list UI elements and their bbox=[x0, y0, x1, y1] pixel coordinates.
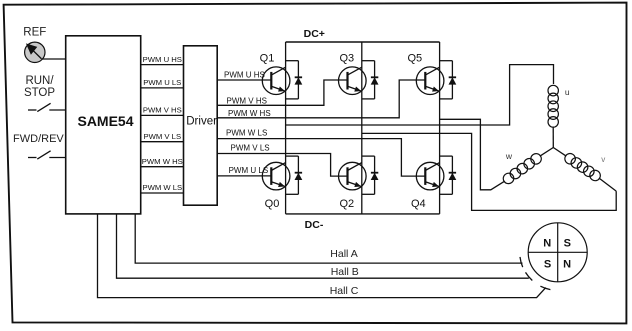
wire gate Q1 bbox=[217, 79, 271, 81]
wire Hall B bbox=[117, 214, 529, 278]
svg-text:v: v bbox=[601, 155, 605, 164]
switch RUN/STOP bbox=[28, 109, 37, 111]
svg-text:PWM W LS: PWM W LS bbox=[142, 183, 182, 192]
wire gate Q2 bbox=[217, 154, 347, 177]
svg-text:N: N bbox=[543, 237, 551, 249]
wire PWM W HS (MCU to driver) bbox=[141, 166, 184, 168]
wire star point to coil W bbox=[540, 148, 554, 157]
wire RUN/STOP to SAME54 bbox=[49, 109, 65, 111]
wire Hall A bbox=[135, 214, 522, 263]
MCU SAME54 box bbox=[66, 36, 141, 214]
inductor coil V bbox=[563, 151, 603, 182]
svg-text:DC+: DC+ bbox=[304, 28, 325, 40]
transistor Q0 with freewheel diode bbox=[262, 156, 302, 194]
svg-text:PWM W LS: PWM W LS bbox=[226, 129, 267, 138]
wire PWM V LS (MCU to driver) bbox=[141, 141, 184, 143]
rotor cross horizontal bbox=[528, 251, 587, 253]
svg-text:Q4: Q4 bbox=[411, 198, 426, 210]
wire half-bridge column W (DC+ to DC-) bbox=[439, 42, 441, 214]
svg-text:Hall C: Hall C bbox=[330, 285, 359, 297]
svg-text:Hall A: Hall A bbox=[330, 248, 357, 260]
svg-text:PWM W HS: PWM W HS bbox=[228, 109, 271, 118]
svg-text:Q0: Q0 bbox=[265, 198, 280, 210]
wire coil U to star point bbox=[552, 127, 554, 148]
driver U1 box bbox=[184, 46, 218, 205]
transistor Q5 with freewheel diode bbox=[416, 61, 456, 99]
svg-text:SAME54: SAME54 bbox=[77, 113, 133, 129]
svg-text:u: u bbox=[565, 87, 570, 97]
wire phase W (bridge to motor) bbox=[440, 119, 505, 190]
wire gate Q0 bbox=[217, 175, 271, 177]
svg-text:Q5: Q5 bbox=[407, 53, 422, 65]
transistor Q3 with freewheel diode bbox=[339, 61, 379, 99]
svg-text:PWM V LS: PWM V LS bbox=[144, 132, 182, 141]
rotor magnet circle bbox=[528, 223, 587, 282]
wire coil V to corner bbox=[599, 178, 616, 191]
svg-text:DC-: DC- bbox=[305, 219, 324, 231]
svg-text:Q2: Q2 bbox=[339, 198, 354, 210]
svg-text:PWM U HS: PWM U HS bbox=[143, 55, 182, 64]
svg-text:Q3: Q3 bbox=[339, 53, 354, 65]
hall sensor A mark bbox=[520, 257, 523, 267]
svg-text:Hall B: Hall B bbox=[331, 266, 359, 278]
wire PWM U LS (MCU to driver) bbox=[141, 87, 184, 89]
inductor coil W bbox=[501, 152, 543, 186]
potentiometer REF knob bbox=[25, 42, 45, 62]
transistor Q2 with freewheel diode bbox=[339, 156, 379, 194]
svg-text:PWM V LS: PWM V LS bbox=[231, 144, 270, 153]
svg-text:FWD/REV: FWD/REV bbox=[13, 133, 64, 145]
wire PWM U HS (MCU to driver) bbox=[141, 64, 184, 66]
inductor coil U bbox=[548, 85, 558, 127]
wire REF to SAME54 bbox=[41, 58, 65, 60]
svg-text:PWM V HS: PWM V HS bbox=[143, 106, 182, 115]
wire PWM W LS (MCU to driver) bbox=[141, 192, 184, 194]
svg-text:N: N bbox=[563, 258, 571, 270]
hall sensor B mark bbox=[526, 272, 533, 280]
svg-text:w: w bbox=[505, 151, 513, 161]
wire FWD/REV to SAME54 bbox=[49, 157, 65, 159]
wire PWM V HS (MCU to driver) bbox=[141, 114, 184, 116]
svg-text:STOP: STOP bbox=[24, 87, 55, 99]
svg-text:PWM V HS: PWM V HS bbox=[227, 96, 267, 105]
wire Hall C bbox=[98, 214, 546, 298]
DC+ rail bbox=[286, 41, 440, 43]
wire phase U (bridge to motor) bbox=[286, 65, 554, 125]
svg-text:S: S bbox=[544, 258, 551, 270]
wire gate Q5 bbox=[217, 80, 425, 118]
svg-text:REF: REF bbox=[23, 27, 46, 39]
wire star point to coil V bbox=[553, 148, 566, 157]
svg-text:PWM U LS: PWM U LS bbox=[143, 78, 181, 87]
wire half-bridge column V (DC+ to DC-) bbox=[361, 42, 363, 214]
hall sensor C mark bbox=[540, 286, 550, 289]
rotor cross vertical bbox=[557, 223, 559, 282]
svg-text:PWM W HS: PWM W HS bbox=[142, 157, 183, 166]
svg-text:RUN/: RUN/ bbox=[25, 75, 54, 87]
svg-text:PWM U HS: PWM U HS bbox=[224, 71, 265, 80]
svg-text:Driver: Driver bbox=[186, 116, 217, 128]
transistor Q4 with freewheel diode bbox=[416, 156, 456, 194]
svg-text:Q1: Q1 bbox=[260, 53, 275, 65]
DC- rail bbox=[286, 213, 440, 215]
switch FWD/REV bbox=[28, 157, 37, 159]
svg-text:S: S bbox=[564, 237, 571, 249]
wire gate Q4 bbox=[217, 139, 425, 177]
wire gate Q3 bbox=[217, 80, 347, 105]
wire phase V (bridge to motor) bbox=[362, 133, 616, 210]
wire half-bridge column U (DC+ to DC-) bbox=[285, 42, 287, 214]
transistor Q1 with freewheel diode bbox=[262, 61, 302, 99]
